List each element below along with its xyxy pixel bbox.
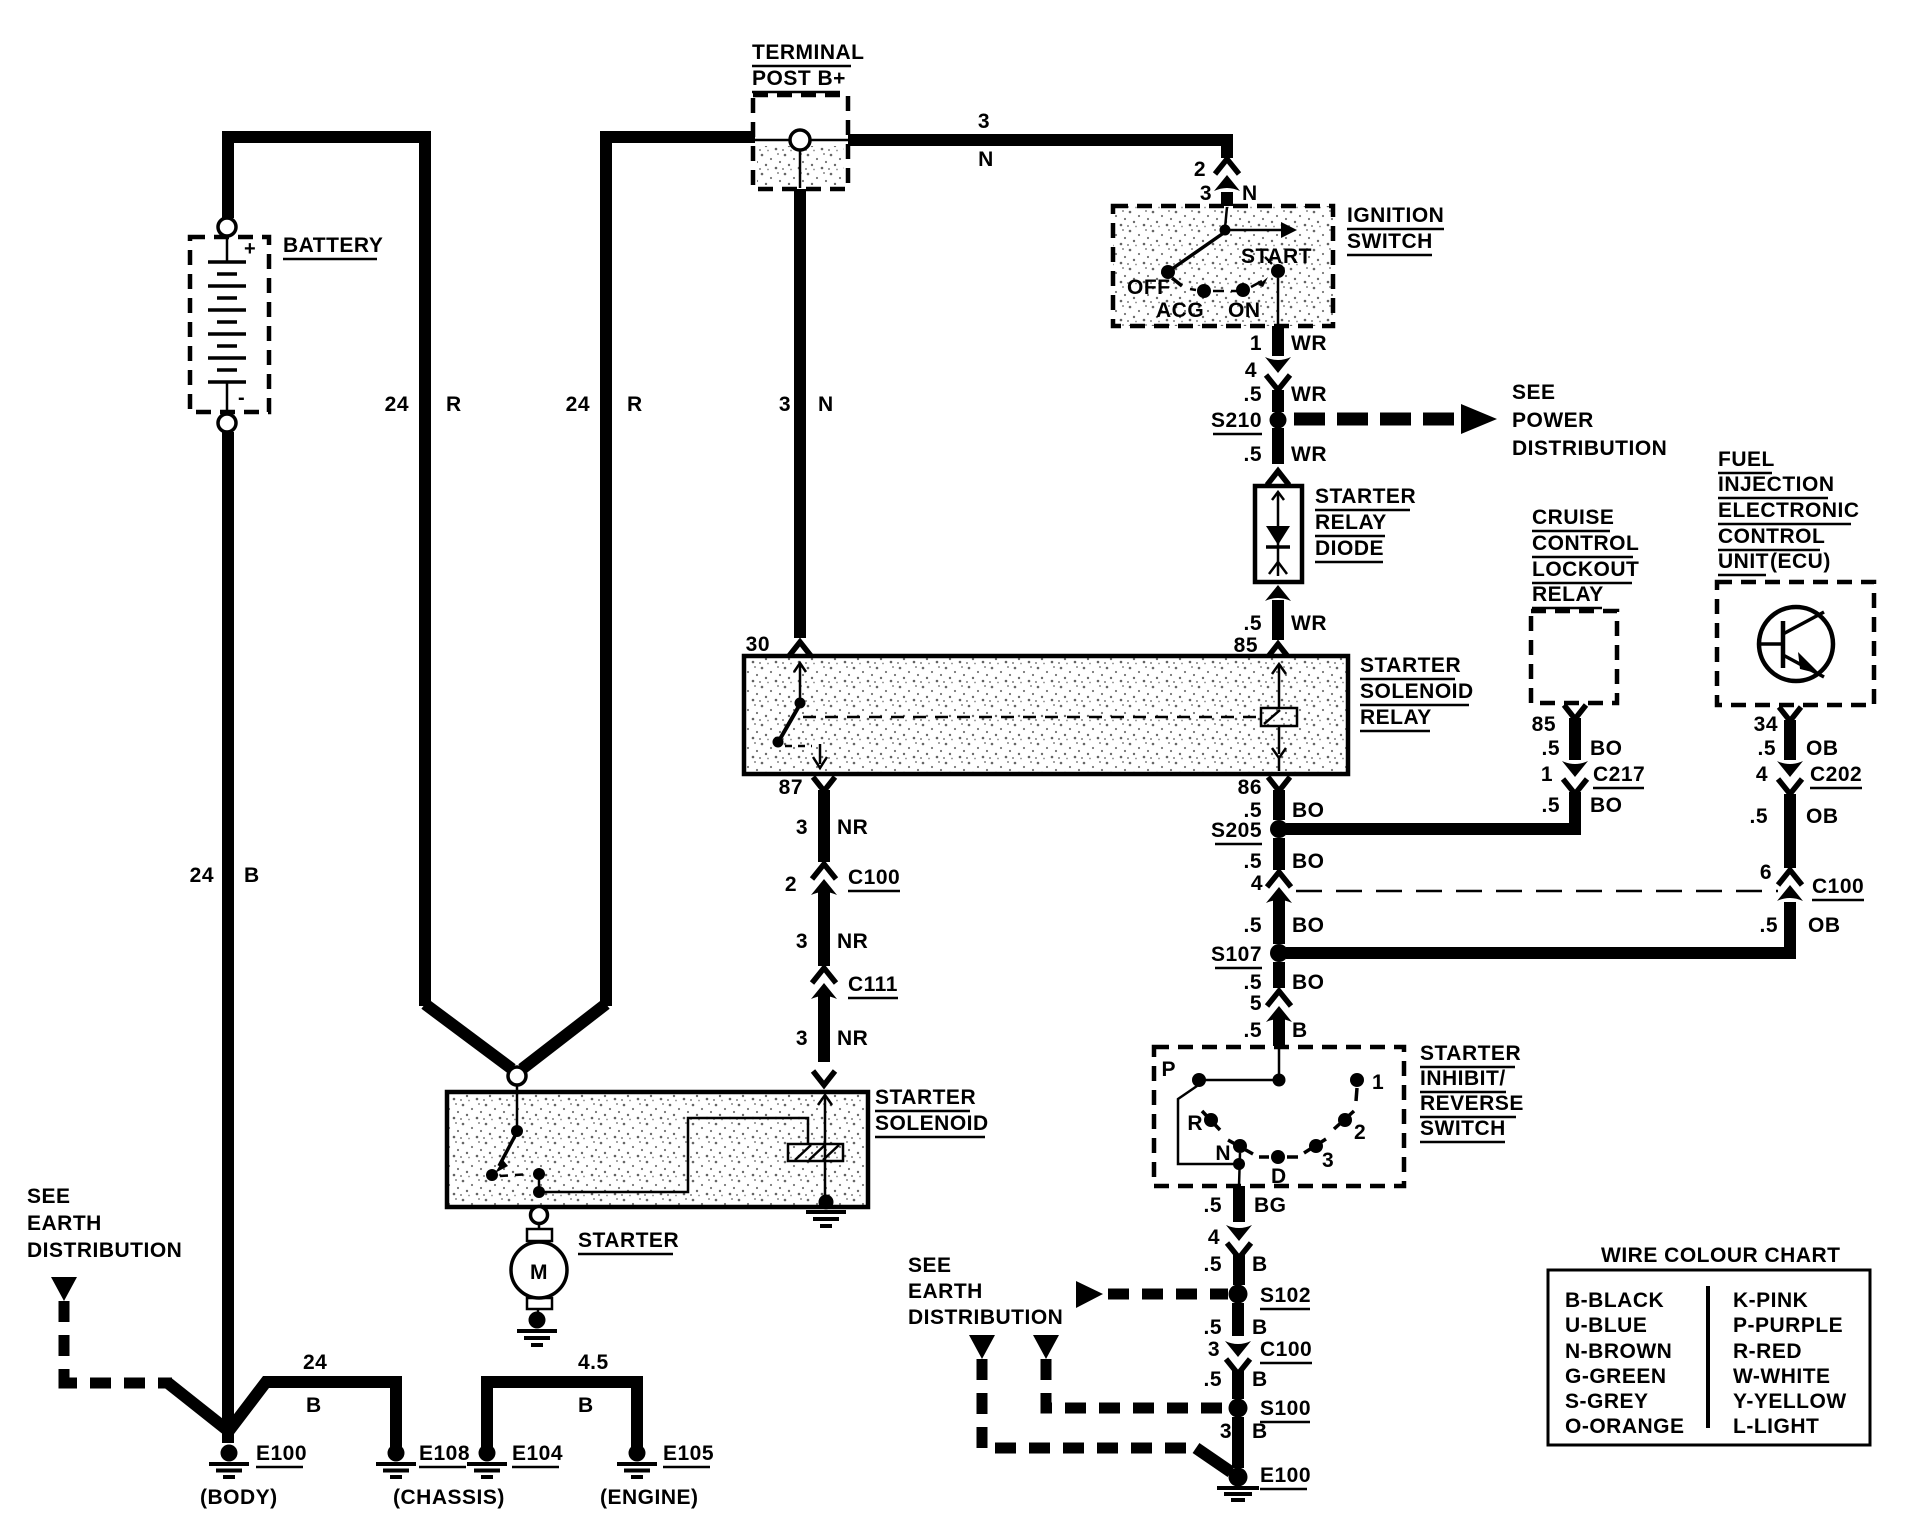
svg-text:87: 87 [779,776,803,799]
label (BODY) [200,1486,278,1509]
connector pin 2 / pin 3 into ignition switch [1214,159,1240,207]
svg-text:85: 85 [1532,713,1556,736]
svg-text:U-BLUE: U-BLUE [1565,1314,1647,1337]
svg-text:R: R [446,393,462,416]
ground internal (starter solenoid coil) [806,1195,846,1227]
svg-text:OB: OB [1806,805,1839,828]
svg-text:B: B [1252,1316,1268,1339]
svg-text:Y-YELLOW: Y-YELLOW [1733,1390,1847,1413]
svg-text:.5: .5 [1243,914,1262,937]
node V junction of battery feeds [508,1067,526,1085]
svg-text:W-WHITE: W-WHITE [1733,1365,1831,1388]
label 3 NR (C111 to solenoid) [796,1027,869,1050]
svg-text:3: 3 [796,930,808,953]
svg-text:E108: E108 [419,1442,470,1465]
connector pin 4 (below inhibit switch) [1226,1225,1252,1258]
wire dashed earth distribution into S102 [1076,1281,1228,1308]
ground E100 (body) [209,1445,249,1478]
label TERMINAL POST B+ [752,41,865,92]
label STARTER [578,1229,679,1254]
label 2 (C100 pin) [785,873,797,896]
wire 3 NR C100 to C111 [818,892,830,966]
svg-text:.5: .5 [1203,1253,1222,1276]
wire 86 from solenoid relay (.5 BO) [1268,777,1290,820]
wire .5 B to S102 [1233,1254,1245,1285]
svg-text:RELAY: RELAY [1360,706,1432,729]
svg-text:.5: .5 [1203,1368,1222,1391]
connector C100 pin 4 (main chain) [1266,872,1292,903]
label 1 (C217 pin) [1541,763,1553,786]
svg-text:STARTER: STARTER [578,1229,679,1252]
wire .5 B C100 to S100 [1232,1370,1244,1399]
svg-text:WR: WR [1291,383,1327,406]
svg-text:D: D [1271,1165,1287,1188]
svg-text:S107: S107 [1211,943,1262,966]
label STARTER INHIBIT/ REVERSE SWITCH [1420,1042,1524,1142]
svg-text:.5: .5 [1203,1316,1222,1339]
svg-text:INHIBIT/: INHIBIT/ [1420,1067,1506,1090]
ground E104 [467,1445,507,1478]
wire dashed C100 bulkhead line [1296,890,1778,893]
svg-text:B: B [1252,1368,1268,1391]
connector into relay box (wire 30 receptacle) [789,642,811,656]
svg-text:B: B [244,864,260,887]
svg-text:4: 4 [1756,763,1768,786]
label 3 (switch) [1322,1149,1334,1172]
svg-text:E100: E100 [1260,1464,1311,1487]
svg-text:.5: .5 [1243,1019,1262,1042]
wire 87 from solenoid relay (3 NR) [813,777,835,862]
svg-text:NR: NR [837,816,868,839]
wire .5 WR diode to relay terminal 85 [1265,585,1291,658]
svg-text:3: 3 [978,110,990,133]
svg-text:E105: E105 [663,1442,714,1465]
svg-text:S205: S205 [1211,819,1262,842]
label ACG [1156,299,1204,322]
svg-text:L-LIGHT: L-LIGHT [1733,1415,1819,1438]
wire .5 B S102 to C100 [1232,1303,1244,1336]
svg-text:85: 85 [1234,634,1258,657]
label M [530,1261,548,1284]
svg-text:C217: C217 [1593,763,1645,786]
svg-text:OFF: OFF [1127,276,1171,299]
wire .5 BO S107 down [1273,962,1285,988]
label 87 [779,776,803,799]
svg-text:BO: BO [1292,850,1325,873]
svg-text:2: 2 [1194,158,1206,181]
svg-text:START: START [1241,245,1312,268]
label 24 R (second riser) [566,393,643,416]
svg-text:K-PINK: K-PINK [1733,1289,1808,1312]
svg-text:ACG: ACG [1156,299,1204,322]
label E100 (body) [256,1442,307,1467]
svg-text:B: B [1252,1253,1268,1276]
svg-text:INJECTION: INJECTION [1718,473,1835,496]
wire 3 NR C111 to starter solenoid [813,996,835,1085]
splice S205 [1270,820,1288,838]
label .5 WR (diode to relay) [1243,612,1327,635]
svg-text:B: B [306,1394,322,1417]
svg-text:S100: S100 [1260,1397,1311,1420]
svg-text:3: 3 [779,393,791,416]
label WIRE COLOUR CHART [1601,1244,1840,1267]
cruise control lockout relay [1531,611,1617,703]
svg-text:FUEL: FUEL [1718,448,1775,471]
svg-text:+: + [244,238,256,260]
svg-text:SOLENOID: SOLENOID [1360,680,1474,703]
svg-text:WIRE COLOUR CHART: WIRE COLOUR CHART [1601,1244,1840,1267]
wire dashed earth distribution (left) [51,1277,226,1429]
label FUEL INJECTION ELECTRONIC CONTROL UNIT (ECU) [1718,448,1860,575]
label STARTER RELAY DIODE [1315,485,1416,562]
label P [1161,1058,1176,1081]
svg-text:4: 4 [1245,359,1257,382]
svg-text:DISTRIBUTION: DISTRIBUTION [27,1239,182,1262]
svg-text:C100: C100 [1260,1338,1312,1361]
label ON [1228,299,1261,322]
ground E108 [376,1445,416,1478]
label 24 B (chassis branch) [303,1351,327,1417]
splice S210 [1270,412,1287,429]
wire S205 to C217 (cruise branch) [1286,792,1575,829]
svg-text:P-PURPLE: P-PURPLE [1733,1314,1843,1337]
label C100 (earth chain) [1260,1338,1312,1363]
label .5 B (S102 to C100) [1203,1316,1267,1339]
connector C100 pin 2 (starter feed) [811,864,837,895]
label 1 WR [1250,332,1327,355]
svg-text:(BODY): (BODY) [200,1486,278,1509]
svg-text:DISTRIBUTION: DISTRIBUTION [1512,437,1667,460]
splice S107 [1270,944,1288,962]
label R [1187,1112,1203,1135]
label 3 B (S100 to E100) [1220,1420,1268,1443]
label 85 (solenoid relay) [1234,634,1258,657]
label IGNITION SWITCH [1347,204,1444,255]
svg-text:CONTROL: CONTROL [1718,525,1825,548]
svg-text:C100: C100 [1812,875,1864,898]
svg-text:TERMINAL: TERMINAL [752,41,865,64]
svg-text:BG: BG [1254,1194,1287,1217]
label .5 OB (C202 to C100) [1749,805,1838,828]
label 3 N (riser) [779,393,834,416]
svg-text:POST B+: POST B+ [752,67,846,90]
label 3 NR (87 to C100) [796,816,869,839]
svg-text:4: 4 [1251,872,1263,895]
connector C111 [811,968,837,999]
svg-text:BO: BO [1292,799,1325,822]
wire dashed earth distribution to S100 [1033,1335,1226,1408]
label C100 (starter feed) [848,866,900,891]
svg-text:R: R [1187,1112,1203,1135]
svg-text:3: 3 [1220,1420,1232,1443]
svg-text:SWITCH: SWITCH [1347,230,1433,253]
svg-text:N: N [1242,182,1258,205]
label C100 (ECU branch) [1812,875,1864,900]
svg-text:EARTH: EARTH [27,1212,102,1235]
svg-text:WR: WR [1291,443,1327,466]
terminal post B+ [753,95,848,189]
svg-text:IGNITION: IGNITION [1347,204,1444,227]
label 1 (switch) [1372,1071,1384,1094]
label OFF [1127,276,1171,299]
svg-text:24: 24 [303,1351,327,1374]
svg-text:OB: OB [1808,914,1841,937]
svg-text:.5: .5 [1243,850,1262,873]
svg-text:REVERSE: REVERSE [1420,1092,1524,1115]
battery [190,218,269,432]
label 24 B (battery negative) [190,864,260,887]
label 4 (C202 pin) [1756,763,1768,786]
wire 34 ECU to C202 (.5 OB) [1779,707,1801,760]
svg-text:CONTROL: CONTROL [1532,532,1639,555]
wire 4.5 B engine earth bracket [487,1382,637,1447]
svg-text:(ECU): (ECU) [1770,550,1831,573]
svg-text:B: B [578,1394,594,1417]
wire .5 WR S210 to diode [1267,428,1289,485]
svg-text:BO: BO [1590,794,1623,817]
wire battery positive to terminal row (24 R left riser) [228,137,512,1069]
wire dashed earth distribution to E100 (right) [969,1335,1231,1472]
wire dashed to power distribution [1294,404,1497,434]
label 4.5 B (engine earths) [578,1351,609,1417]
wire .5 BO C100 to S107 [1273,900,1285,944]
svg-text:SWITCH: SWITCH [1420,1117,1506,1140]
splice S102 [1229,1285,1248,1304]
svg-text:ELECTRONIC: ELECTRONIC [1718,499,1860,522]
label 24 R (left riser) [385,393,462,416]
label C111 [848,973,898,998]
label .5 B (above S102) [1203,1253,1267,1276]
svg-text:STARTER: STARTER [1420,1042,1521,1065]
svg-text:DISTRIBUTION: DISTRIBUTION [908,1306,1063,1329]
label E105 [663,1442,714,1467]
label SEE EARTH DISTRIBUTION (left) [27,1185,182,1262]
svg-text:C100: C100 [848,866,900,889]
svg-text:.5: .5 [1749,805,1768,828]
label 3 N (top run) [978,110,994,171]
label .5 WR (above S210) [1243,383,1327,406]
wire ignition switch terminal 1 (1 WR) [1272,326,1284,356]
svg-text:BO: BO [1292,971,1325,994]
svg-text:3: 3 [1322,1149,1334,1172]
svg-text:R: R [627,393,643,416]
label 5 [1250,992,1262,1015]
svg-text:B: B [1292,1019,1308,1042]
label 86 [1238,776,1262,799]
svg-text:R-RED: R-RED [1733,1340,1802,1363]
label STARTER SOLENOID [875,1086,989,1137]
svg-text:N: N [978,148,994,171]
svg-text:EARTH: EARTH [908,1280,983,1303]
svg-text:P: P [1161,1058,1176,1081]
svg-text:POWER: POWER [1512,409,1594,432]
svg-text:ON: ON [1228,299,1261,322]
svg-text:WR: WR [1291,612,1327,635]
connector C100 pin 6 (ECU branch) [1777,870,1803,901]
svg-text:M: M [530,1261,548,1284]
svg-text:1: 1 [1541,763,1553,786]
wire terminal post to ignition switch (3 N top run) [848,138,1233,158]
svg-text:.5: .5 [1757,737,1776,760]
svg-text:.5: .5 [1541,794,1560,817]
starter inhibit / reverse switch [1154,1047,1404,1186]
svg-text:24: 24 [385,393,409,416]
svg-text:86: 86 [1238,776,1262,799]
label N [1215,1142,1231,1165]
connector C202 pin 4 [1777,761,1803,794]
svg-text:G-GREEN: G-GREEN [1565,1365,1667,1388]
ground E100 (right) [1217,1468,1259,1501]
svg-text:STARTER: STARTER [875,1086,976,1109]
starter solenoid relay [744,656,1348,774]
label .5 B (to inhibit switch) [1243,1019,1307,1042]
label E108 [419,1442,470,1467]
svg-text:5: 5 [1250,992,1262,1015]
wire terminal post down to solenoid relay terminal 30 (3 N riser) [794,189,806,638]
label 2 [1194,158,1206,181]
label STARTER SOLENOID RELAY [1360,654,1474,731]
starter relay diode CR1 [1255,486,1302,582]
wire battery negative 24 B down to body earth [222,432,234,1443]
label 85 (cruise relay) [1532,713,1556,736]
label .5 BO (C217 to S205) [1541,794,1622,817]
label S102 [1260,1284,1311,1309]
label C217 [1593,763,1645,788]
ignition switch [1113,206,1333,326]
svg-text:E104: E104 [512,1442,563,1465]
ground starter motor [517,1312,557,1346]
label SEE EARTH DISTRIBUTION (right) [908,1254,1063,1329]
svg-text:3: 3 [1200,182,1212,205]
connector pin 1 / pin 4 below ignition switch [1265,357,1291,390]
svg-text:N: N [818,393,834,416]
label D [1271,1165,1287,1188]
label 30 [746,633,770,656]
wire colour chart [1548,1270,1870,1445]
svg-text:SEE: SEE [908,1254,952,1277]
label .5 WR (below S210) [1243,443,1327,466]
label 3 (C100 pin) [1208,1338,1220,1361]
label S100 [1260,1397,1311,1422]
wire 24 B branch to chassis earth E108 [228,1382,396,1447]
label 4 (C100 pin) [1251,872,1263,895]
svg-text:STARTER: STARTER [1315,485,1416,508]
svg-text:3: 3 [796,1027,808,1050]
ground E105 [617,1445,657,1478]
svg-text:O-ORANGE: O-ORANGE [1565,1415,1685,1438]
wire .5 OB C202 to C100 [1784,794,1796,868]
svg-text:6: 6 [1760,861,1772,884]
svg-text:.5: .5 [1541,737,1560,760]
svg-text:WR: WR [1291,332,1327,355]
svg-text:OB: OB [1806,737,1839,760]
svg-text:4: 4 [1208,1226,1220,1249]
label 6 (C100 pin) [1760,861,1772,884]
label 2 (switch) [1354,1121,1366,1144]
label .5 B (C100 to S100) [1203,1368,1267,1391]
label START [1241,245,1312,268]
svg-text:NR: NR [837,1027,868,1050]
label S210 [1211,409,1262,434]
svg-text:(ENGINE): (ENGINE) [600,1486,699,1509]
svg-text:(CHASSIS): (CHASSIS) [393,1486,505,1509]
svg-text:.5: .5 [1243,971,1262,994]
svg-text:BO: BO [1292,914,1325,937]
svg-text:BATTERY: BATTERY [283,234,383,257]
label SEE POWER DISTRIBUTION [1512,381,1667,460]
svg-text:3: 3 [1208,1338,1220,1361]
starter solenoid [447,1085,868,1207]
svg-text:RELAY: RELAY [1532,583,1604,606]
label 3 NR (C100 to C111) [796,930,869,953]
svg-text:C111: C111 [848,973,898,996]
svg-text:NR: NR [837,930,868,953]
connector C217 pin 1 [1562,761,1588,794]
label 4 (below inhibit switch) [1208,1226,1220,1249]
svg-text:E100: E100 [256,1442,307,1465]
label 34 [1754,713,1778,736]
label .5 BO (cruise) [1541,737,1622,760]
label C202 [1810,763,1862,788]
svg-text:UNIT: UNIT [1718,550,1769,573]
wire 85 cruise relay to C217 (.5 BO) [1564,705,1586,760]
svg-text:RELAY: RELAY [1315,511,1387,534]
label (CHASSIS) [393,1486,505,1509]
svg-text:.5: .5 [1243,443,1262,466]
svg-text:B: B [1252,1420,1268,1443]
svg-text:S-GREY: S-GREY [1565,1390,1649,1413]
svg-text:B-BLACK: B-BLACK [1565,1289,1664,1312]
wire .5 BO S205 to C100 pin 4 [1273,838,1285,870]
label E100 (right) [1260,1464,1311,1489]
svg-text:1: 1 [1372,1071,1384,1094]
connector pin 5 (inhibit switch feed) [1266,991,1292,1022]
svg-text:.5: .5 [1243,383,1262,406]
label .5 BG [1203,1194,1286,1217]
starter motor M [511,1207,567,1316]
wire .5 WR to splice S210 [1272,390,1284,412]
svg-text:S102: S102 [1260,1284,1311,1307]
label CRUISE CONTROL LOCKOUT RELAY [1532,506,1639,608]
label .5 BO (C100 to S107) [1243,914,1324,937]
label 4 [1245,359,1257,382]
label S107 [1211,943,1262,968]
svg-text:-: - [238,387,245,409]
label 3 N (ignition entry) [1200,182,1258,205]
label .5 OB (ECU) [1757,737,1838,760]
wire 3 B S100 to E100 [1232,1417,1244,1468]
label E104 [512,1442,563,1467]
svg-text:24: 24 [566,393,590,416]
svg-text:4.5: 4.5 [578,1351,609,1374]
label .5 BO (86 to S205) [1243,799,1324,822]
label BATTERY [283,234,383,259]
label (ENGINE) [600,1486,699,1509]
label .5 BO (S205 to C100) [1243,850,1324,873]
svg-text:30: 30 [746,633,770,656]
svg-text:.5: .5 [1243,612,1262,635]
svg-text:LOCKOUT: LOCKOUT [1532,558,1639,581]
svg-text:SEE: SEE [1512,381,1556,404]
svg-text:STARTER: STARTER [1360,654,1461,677]
wire .5 B to inhibit switch [1273,1019,1285,1046]
svg-text:BO: BO [1590,737,1623,760]
wire second 24 R riser from terminal post feed [522,137,755,1069]
label .5 OB (C100 to S107) [1759,914,1840,937]
fuel injection ECU U1 [1717,582,1874,705]
svg-text:N-BROWN: N-BROWN [1565,1340,1672,1363]
svg-text:SOLENOID: SOLENOID [875,1112,989,1135]
